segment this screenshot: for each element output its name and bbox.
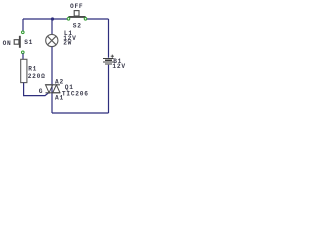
Q1 left triangle bbox=[46, 85, 53, 93]
S2 terminal right bbox=[84, 18, 87, 21]
S2 contact bar bbox=[68, 16, 85, 18]
S1 terminal top bbox=[22, 31, 25, 34]
wire right rail bottom bbox=[108, 65, 110, 113]
B1 negative plate 2 bbox=[105, 63, 112, 64]
S1 contact bar bbox=[19, 36, 21, 48]
triac Q1 bbox=[46, 85, 61, 93]
wire right rail top bbox=[108, 19, 110, 58]
L1 cross bbox=[48, 36, 57, 45]
wire left rail bbox=[22, 19, 24, 32]
wire S1 to R1 bbox=[22, 54, 24, 60]
battery B1 bbox=[103, 58, 113, 65]
B1 negative plate 1 bbox=[105, 60, 112, 61]
S2 button actuator bbox=[74, 11, 79, 16]
switch S1 push-to-make bbox=[14, 31, 24, 54]
Q1 right triangle bbox=[53, 85, 60, 93]
svg-text:ON: ON bbox=[3, 40, 12, 47]
L1 bulb circle bbox=[46, 34, 58, 46]
wire lamp branch top bbox=[51, 19, 53, 35]
S1 button actuator bbox=[14, 40, 19, 45]
svg-text:TIC206: TIC206 bbox=[62, 90, 89, 97]
wire bottom rail bbox=[52, 112, 109, 114]
svg-text:OFF: OFF bbox=[70, 3, 83, 10]
lamp L1 bbox=[46, 34, 58, 46]
S2 terminal left bbox=[67, 18, 70, 21]
svg-text:S2: S2 bbox=[73, 22, 82, 29]
B1 positive plate 2 bbox=[103, 62, 113, 63]
svg-text:S1: S1 bbox=[24, 39, 33, 46]
node junction at lamp branch bbox=[51, 17, 54, 20]
svg-text:220Ω: 220Ω bbox=[28, 73, 46, 80]
svg-text:12V: 12V bbox=[112, 63, 125, 70]
wire top rail left segment bbox=[23, 18, 68, 20]
battery plus sign bbox=[111, 55, 114, 58]
svg-text:G: G bbox=[39, 88, 43, 95]
svg-text:A2: A2 bbox=[55, 79, 64, 86]
svg-text:R1: R1 bbox=[28, 65, 37, 72]
wire R1 to gate bbox=[24, 83, 49, 96]
svg-text:2W: 2W bbox=[63, 39, 72, 46]
Q1 top bar (A2 terminal) bbox=[46, 84, 61, 86]
resistor R1 bbox=[21, 59, 27, 82]
Q1 bottom bar (A1 terminal) bbox=[46, 92, 61, 94]
switch S2 push-to-break bbox=[67, 11, 87, 21]
S1 terminal bottom bbox=[22, 51, 25, 54]
wire top rail right segment bbox=[86, 18, 109, 20]
B1 positive plate 1 bbox=[103, 58, 113, 59]
wire lamp to triac and through to bottom rail bbox=[51, 47, 53, 113]
